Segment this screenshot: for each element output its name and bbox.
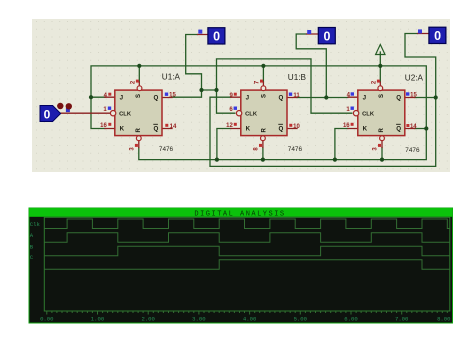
svg-text:0.00: 0.00 [40,316,54,323]
svg-text:16: 16 [343,123,350,129]
svg-text:Clk: Clk [30,221,41,228]
svg-text:J: J [363,95,367,102]
svg-text:CLK: CLK [119,112,132,118]
svg-text:J: J [120,95,124,102]
svg-text:1.00: 1.00 [91,316,105,323]
svg-text:K: K [363,126,368,133]
svg-text:15: 15 [169,92,176,98]
svg-text:0: 0 [44,107,51,121]
svg-text:J: J [246,95,250,102]
svg-text:16: 16 [100,123,107,129]
svg-text:0: 0 [324,30,331,44]
svg-text:0: 0 [213,30,220,44]
svg-text:7476: 7476 [405,147,420,154]
svg-text:6.00: 6.00 [344,316,358,323]
svg-text:K: K [120,126,125,133]
svg-text:K: K [246,126,251,133]
svg-text:14: 14 [170,124,177,130]
svg-text:5.00: 5.00 [294,316,308,323]
svg-text:11: 11 [293,93,300,99]
svg-text:7.00: 7.00 [395,316,409,323]
svg-text:10: 10 [293,124,300,130]
svg-text:S: S [136,94,142,98]
svg-text:Q: Q [154,126,159,133]
svg-text:0: 0 [434,29,441,43]
svg-text:Q: Q [396,126,401,133]
svg-text:8.00: 8.00 [437,316,451,323]
svg-text:R: R [136,127,142,132]
svg-text:U1:A: U1:A [162,72,181,81]
svg-text:14: 14 [410,124,417,130]
svg-text:CLK: CLK [245,112,258,118]
svg-text:3.00: 3.00 [192,316,206,323]
svg-text:R: R [379,127,385,132]
svg-text:Q: Q [279,95,284,102]
svg-text:Q: Q [279,126,284,133]
svg-text:Q: Q [154,95,159,102]
svg-text:2.00: 2.00 [141,316,155,323]
svg-text:Q: Q [396,95,401,102]
svg-text:S: S [261,94,267,98]
svg-text:7476: 7476 [288,146,303,153]
svg-text:4.00: 4.00 [243,316,257,323]
svg-text:7476: 7476 [159,146,174,153]
svg-text:U1:B: U1:B [288,73,307,82]
svg-text:U2:A: U2:A [405,73,424,82]
svg-text:12: 12 [226,123,233,129]
svg-text:15: 15 [410,92,417,98]
svg-text:CLK: CLK [362,112,375,118]
svg-text:R: R [262,127,268,132]
svg-text:S: S [379,94,385,98]
